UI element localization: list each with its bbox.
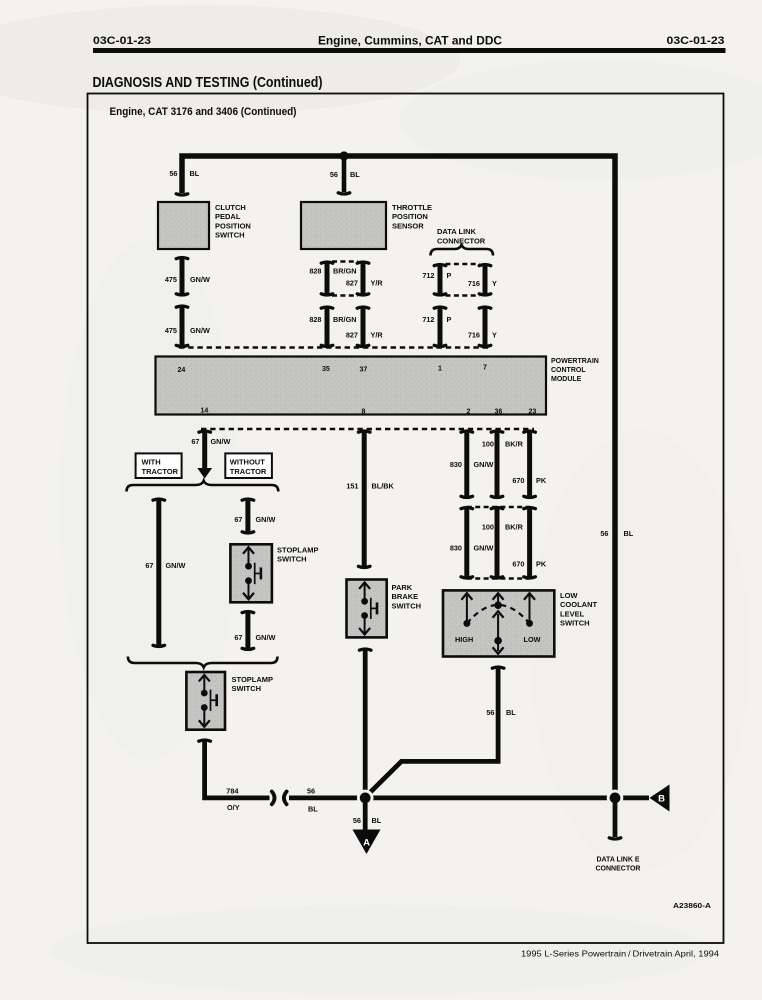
svg-text:716: 716	[468, 279, 480, 288]
arrow B: circuit continuation	[650, 785, 670, 812]
svg-text:CONNECTOR: CONNECTOR	[596, 866, 641, 873]
svg-text:Y: Y	[492, 279, 497, 288]
svg-text:151: 151	[346, 482, 358, 491]
svg-text:67: 67	[234, 515, 242, 524]
wire: 830 GN/W lower segment	[461, 508, 473, 509]
svg-text:BL/BK: BL/BK	[372, 482, 395, 491]
svg-text:BL: BL	[190, 169, 200, 178]
svg-text:WITH: WITH	[142, 458, 161, 467]
header rule	[93, 48, 726, 53]
svg-text:830: 830	[450, 544, 462, 553]
svg-text:WITHOUT: WITHOUT	[230, 458, 265, 467]
svg-text:BL: BL	[308, 805, 318, 814]
wire: 830 GN/W upper segment from PCM pin 2	[461, 431, 473, 432]
wire: 100 BK/R lower segment	[491, 508, 503, 509]
wire: 784 O/Y from stoplamp switch to splice junction	[199, 740, 211, 741]
svg-text:SENSOR: SENSOR	[392, 221, 424, 230]
svg-text:O/Y: O/Y	[227, 803, 240, 812]
svg-text:56: 56	[353, 816, 361, 825]
svg-text:827: 827	[346, 279, 358, 288]
symbol: stoplamp switch 2 contacts	[199, 675, 210, 682]
wire: 716 Y lower segment to PCM pin 7	[479, 307, 491, 308]
wire: 475 GN/W lower segment to PCM pin 24	[176, 306, 188, 307]
svg-text:LOW: LOW	[560, 591, 578, 600]
wire: 716 Y upper segment	[479, 265, 491, 266]
svg-text:SWITCH: SWITCH	[215, 231, 245, 240]
svg-text:475: 475	[165, 326, 177, 335]
bus dashes: harness connector above PCM	[179, 346, 490, 348]
svg-text:670: 670	[512, 476, 524, 485]
wire: 56 BL top bus with left drop and right drop	[182, 156, 615, 796]
svg-text:716: 716	[468, 331, 480, 340]
svg-text:36: 36	[495, 409, 503, 416]
brace: splice spread (upper)	[127, 481, 279, 492]
svg-text:PEDAL: PEDAL	[215, 212, 241, 221]
svg-text:GN/W: GN/W	[190, 326, 210, 335]
svg-text:TRACTOR: TRACTOR	[230, 467, 267, 476]
connector dashes: coolant harness connector	[467, 506, 530, 508]
svg-text:BL: BL	[350, 170, 360, 179]
connector dashes: low coolant switch connector	[467, 577, 530, 579]
svg-text:LEVEL: LEVEL	[560, 609, 585, 618]
svg-text:BL: BL	[506, 708, 516, 717]
svg-text:P: P	[447, 271, 452, 280]
wire: 56 BL stub to data link E connector	[613, 803, 618, 837]
svg-text:CLUTCH: CLUTCH	[215, 203, 246, 212]
symbol: stoplamp switch contacts	[243, 547, 254, 554]
wire: 475 GN/W upper segment from clutch switch	[176, 258, 188, 259]
junction B: data link E splice	[607, 790, 624, 807]
svg-text:03C-01-23: 03C-01-23	[667, 35, 725, 47]
svg-text:Engine, CAT 3176 and 3406 (Con: Engine, CAT 3176 and 3406 (Continued)	[110, 106, 297, 118]
svg-text:GN/W: GN/W	[474, 460, 494, 469]
svg-text:PK: PK	[536, 476, 547, 485]
arrow A: circuit continuation	[353, 830, 381, 855]
brace: splice merge (lower)	[128, 657, 278, 668]
symbol: park brake switch contacts	[359, 582, 370, 589]
svg-text:P: P	[447, 315, 452, 324]
wire: 712 P upper segment	[434, 265, 446, 266]
component: throttle position sensor box	[301, 202, 386, 249]
svg-text:B: B	[658, 794, 665, 805]
wire: 67 GN/W without-tractor branch upper	[242, 499, 254, 500]
svg-text:BL: BL	[372, 816, 382, 825]
svg-text:THROTTLE: THROTTLE	[392, 203, 432, 212]
svg-text:830: 830	[450, 460, 462, 469]
svg-text:23: 23	[529, 409, 537, 416]
svg-text:SWITCH: SWITCH	[277, 555, 307, 564]
wire: 670 PK upper segment from PCM pin 23	[524, 431, 536, 432]
svg-text:67: 67	[191, 437, 199, 446]
wire: 151 BL/BK from PCM pin 8 to park brake switch	[358, 431, 370, 432]
svg-text:GN/W: GN/W	[211, 437, 231, 446]
svg-text:PK: PK	[536, 560, 547, 569]
wire: 100 BK/R upper segment from PCM pin 36	[491, 431, 503, 432]
bus dashes: harness connector below PCM	[201, 428, 534, 430]
wire: 828 BR/GN upper segment	[321, 262, 333, 263]
svg-text:828: 828	[309, 315, 321, 324]
svg-text:SWITCH: SWITCH	[232, 684, 262, 693]
svg-text:BK/R: BK/R	[505, 440, 524, 449]
svg-text:14: 14	[201, 408, 209, 415]
svg-text:03C-01-23: 03C-01-23	[93, 35, 151, 47]
wire: 712 P lower segment to PCM pin 1	[434, 307, 446, 308]
svg-text:A23860-A: A23860-A	[673, 903, 711, 910]
component: park brake switch box	[347, 580, 387, 638]
svg-text:24: 24	[178, 367, 186, 374]
svg-text:670: 670	[512, 560, 524, 569]
wire: 56 BL from junction A to arrow A	[363, 803, 368, 831]
connector dashes: TPS in-line connector	[332, 260, 358, 262]
connector dashes: data link connector	[446, 263, 480, 265]
junction: top bus tap to throttle position sensor	[339, 151, 348, 160]
wire: 56 BL from park brake switch down to junction A	[359, 649, 371, 650]
wire: 827 Y/R lower segment to PCM pin 37	[357, 307, 369, 308]
wire: 67 GN/W from PCM pin 14	[199, 431, 211, 432]
svg-text:GN/W: GN/W	[474, 544, 494, 553]
svg-text:GN/W: GN/W	[166, 561, 186, 570]
component: low coolant level switch box	[443, 590, 554, 656]
wire: 828 BR/GN lower segment to PCM pin 35	[321, 307, 333, 308]
svg-text:712: 712	[422, 271, 434, 280]
svg-text:A: A	[363, 838, 370, 849]
svg-text:POWERTRAIN: POWERTRAIN	[551, 358, 599, 365]
svg-text:712: 712	[422, 315, 434, 324]
svg-text:828: 828	[309, 267, 321, 276]
connector: in-line connector on 784/56 wire	[272, 792, 275, 805]
svg-text:GN/W: GN/W	[256, 633, 276, 642]
wire: 67 GN/W below stoplamp switch	[242, 612, 254, 613]
svg-text:475: 475	[165, 275, 177, 284]
junction A: splice	[357, 790, 374, 807]
component: powertrain control module box	[156, 357, 547, 415]
svg-text:POSITION: POSITION	[215, 221, 251, 230]
svg-text:BL: BL	[624, 529, 634, 538]
wire: 56 BL drop to throttle position sensor	[342, 158, 347, 192]
wire: 56 BL from connector to junction A	[289, 796, 365, 801]
wire: 56 BL from low coolant switch to junction A	[492, 667, 504, 668]
svg-text:100: 100	[482, 523, 494, 532]
svg-text:BK/R: BK/R	[505, 523, 524, 532]
svg-text:POSITION: POSITION	[392, 212, 428, 221]
svg-text:GN/W: GN/W	[256, 515, 276, 524]
svg-text:Y: Y	[492, 331, 497, 340]
svg-text:BRAKE: BRAKE	[392, 592, 419, 601]
wire: 67 GN/W with-tractor branch (long)	[153, 499, 165, 500]
svg-text:CONTROL: CONTROL	[551, 367, 586, 374]
svg-text:67: 67	[234, 633, 242, 642]
diagram border	[88, 94, 724, 944]
wire: 56 BL bottom bus from junction A to connector B	[365, 796, 649, 801]
svg-text:8: 8	[362, 409, 366, 416]
svg-text:100: 100	[482, 440, 494, 449]
svg-text:784: 784	[226, 787, 239, 796]
svg-text:56: 56	[486, 708, 494, 717]
svg-text:MODULE: MODULE	[551, 376, 582, 383]
svg-text:Engine, Cummins, CAT and DDC: Engine, Cummins, CAT and DDC	[318, 36, 502, 48]
svg-text:GN/W: GN/W	[190, 275, 210, 284]
svg-text:2: 2	[467, 409, 471, 416]
svg-text:827: 827	[346, 331, 358, 340]
symbol: low coolant level switch internals	[461, 593, 472, 600]
svg-text:PARK: PARK	[392, 583, 413, 592]
svg-text:Y/R: Y/R	[371, 279, 384, 288]
svg-text:TRACTOR: TRACTOR	[142, 467, 179, 476]
brace: data link connector	[431, 245, 494, 256]
svg-text:56: 56	[600, 529, 608, 538]
svg-text:1995 L-Series Powertrain / Dri: 1995 L-Series Powertrain / Drivetrain Ap…	[521, 949, 719, 959]
svg-text:COOLANT: COOLANT	[560, 600, 597, 609]
svg-text:56: 56	[169, 169, 177, 178]
component: stoplamp switch (with tractor) box	[186, 672, 225, 730]
svg-text:LOW: LOW	[524, 635, 541, 644]
wire: 827 Y/R upper segment	[357, 262, 369, 263]
svg-text:DIAGNOSIS AND TESTING (Continu: DIAGNOSIS AND TESTING (Continued)	[93, 75, 323, 91]
svg-text:7: 7	[483, 365, 487, 372]
svg-text:DATA LINK E: DATA LINK E	[596, 857, 639, 864]
svg-text:37: 37	[360, 367, 368, 374]
svg-text:HIGH: HIGH	[455, 635, 473, 644]
svg-text:SWITCH: SWITCH	[560, 619, 590, 628]
svg-text:BR/GN: BR/GN	[333, 315, 357, 324]
svg-text:STOPLAMP: STOPLAMP	[277, 546, 319, 555]
wire: 670 PK lower segment	[524, 508, 536, 509]
svg-text:56: 56	[307, 787, 315, 796]
svg-text:56: 56	[330, 170, 338, 179]
svg-text:35: 35	[322, 366, 330, 373]
component: stoplamp switch (without tractor) box	[230, 544, 272, 602]
svg-text:SWITCH: SWITCH	[392, 601, 422, 610]
svg-text:STOPLAMP: STOPLAMP	[232, 675, 274, 684]
svg-text:1: 1	[438, 366, 442, 373]
callout box: WITH TRACTOR	[136, 453, 182, 478]
svg-text:67: 67	[145, 561, 153, 570]
svg-text:Y/R: Y/R	[371, 331, 384, 340]
svg-text:BR/GN: BR/GN	[333, 267, 357, 276]
svg-text:DATA LINK: DATA LINK	[437, 227, 477, 236]
component: clutch pedal position switch box	[158, 202, 209, 249]
callout box: WITHOUT TRACTOR	[225, 453, 272, 478]
